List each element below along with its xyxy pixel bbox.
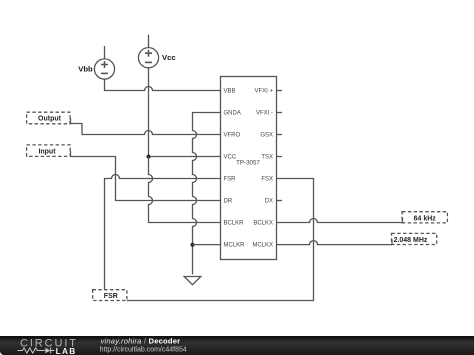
svg-text:VBB: VBB xyxy=(224,89,236,95)
svg-text:MCLKX: MCLKX xyxy=(252,243,273,249)
svg-text:FSR: FSR xyxy=(224,177,237,183)
node junction VCC xyxy=(147,155,151,159)
svg-text:MCLKR: MCLKR xyxy=(224,243,246,249)
svg-text:LAB: LAB xyxy=(56,346,77,355)
voltage source V2 Vbb xyxy=(94,59,114,79)
IC U1 TP-3057 body xyxy=(221,77,277,260)
svg-text:BCLKX: BCLKX xyxy=(253,221,273,227)
wire Vcc down to VCC node xyxy=(148,68,150,157)
node flag Input xyxy=(27,145,71,157)
pin stub VFXI+ xyxy=(277,90,283,92)
wire GNDA pin down to ground (vertical hops over 5 rows) xyxy=(193,113,221,275)
wire MCLKX pin to 2.048MHz flag (hop over FSX wire) xyxy=(277,241,393,245)
wire Input flag to DR pin xyxy=(71,157,221,201)
svg-text:GNDA: GNDA xyxy=(224,111,241,117)
svg-text:FSR: FSR xyxy=(104,293,118,300)
wire MCLKR row xyxy=(193,244,221,246)
wire Vcc top stub xyxy=(148,35,150,48)
wire BCLKX pin to 64kHz flag (hop over FSX wire) xyxy=(277,219,403,223)
svg-text:DR: DR xyxy=(224,199,233,205)
pin stub TSX xyxy=(277,156,283,158)
svg-text:VFXI -: VFXI - xyxy=(256,111,273,117)
ground xyxy=(184,277,201,285)
node junction MCLKR/ground xyxy=(191,243,195,247)
pin stub GSX xyxy=(277,134,283,136)
svg-text:vinay.rohira / Decoder: vinay.rohira / Decoder xyxy=(101,336,181,345)
wire Output flag to VFRO pin (hop over Vcc wire) xyxy=(71,124,221,135)
svg-text:64 kHz: 64 kHz xyxy=(414,215,437,222)
svg-text:Vcc: Vcc xyxy=(162,53,176,62)
svg-text:Vbb: Vbb xyxy=(78,65,93,74)
wire VCC node to VCC pin xyxy=(149,156,221,158)
wire Vbb to VBB pin (hop over Vcc wire) xyxy=(105,79,221,90)
svg-text:2.048 MHz: 2.048 MHz xyxy=(394,237,428,244)
svg-text:Input: Input xyxy=(38,148,56,155)
svg-text:GSX: GSX xyxy=(260,133,273,139)
svg-text:TP-3057: TP-3057 xyxy=(236,159,260,166)
node flag Output xyxy=(27,112,71,124)
pin stub VFXI- xyxy=(277,112,283,114)
svg-text:FSX: FSX xyxy=(261,177,273,183)
node flag 64 kHz xyxy=(402,212,447,223)
wire Vbb top stub xyxy=(104,46,106,59)
wire VCC node down to BCLKR pin (vertical hops at FSR and DR rows) xyxy=(149,157,221,223)
svg-text:http://circuitlab.com/c44f854: http://circuitlab.com/c44f854 xyxy=(100,346,187,353)
svg-text:TSX: TSX xyxy=(261,155,273,161)
pin stub DX xyxy=(277,200,283,202)
wire FSX pin down and around to FSR flag xyxy=(127,179,314,301)
svg-text:Output: Output xyxy=(38,116,62,123)
voltage source V1 Vcc xyxy=(138,48,158,68)
svg-text:VCC: VCC xyxy=(224,155,237,161)
svg-text:BCLKR: BCLKR xyxy=(224,221,245,227)
wire FSR pin to FSR flag (hop over Input wire) xyxy=(105,175,221,290)
node flag 2.048 MHz xyxy=(392,233,437,244)
svg-text:DX: DX xyxy=(265,199,273,205)
svg-text:VFRO: VFRO xyxy=(224,133,241,139)
node flag FSR xyxy=(93,290,127,301)
svg-text:VFXI +: VFXI + xyxy=(254,89,273,95)
